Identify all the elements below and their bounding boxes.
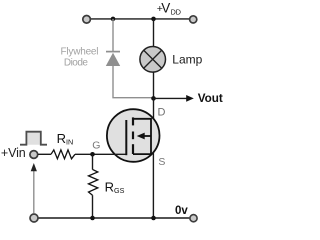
terminal bottom-left [30, 214, 38, 222]
svg-text:0v: 0v [175, 205, 188, 217]
junction node G [90, 152, 95, 157]
wire drain lead [153, 98, 155, 119]
junction source bottom [151, 216, 156, 221]
svg-text:Vout: Vout [198, 92, 223, 105]
svg-text:Lamp: Lamp [172, 53, 202, 67]
terminal top-left [83, 15, 91, 23]
junction lamp-branch top [151, 17, 156, 22]
resistor RGS bottom lead [92, 195, 94, 218]
diode D1 triangle [106, 53, 120, 66]
svg-text:D: D [158, 107, 166, 119]
junction diode-branch top [111, 17, 116, 22]
source interior connection [133, 136, 151, 154]
svg-text:S: S [158, 156, 165, 168]
lamp X stroke 1 [144, 50, 162, 68]
channel segment top [132, 117, 134, 125]
Vin arrowhead [31, 163, 37, 171]
wire Vout [154, 97, 188, 99]
wire diode branch lower [113, 66, 153, 98]
pulse input symbol [20, 132, 47, 145]
terminal top-right [190, 16, 197, 23]
junction RGS bottom [90, 216, 95, 221]
Vin arrow shaft [33, 171, 35, 214]
gate wire into transistor [75, 153, 126, 155]
drain interior connection [133, 119, 151, 136]
wire diode branch upper [112, 19, 114, 51]
transistor Q1 MOSFET body circle [107, 109, 160, 162]
channel segment middle [132, 132, 134, 140]
svg-text:RGS: RGS [105, 180, 125, 195]
svg-text:+Vin: +Vin [1, 146, 26, 160]
wire bottom 0v rail [38, 217, 189, 219]
svg-text:DD: DD [171, 8, 181, 17]
resistor RGS zigzag [89, 169, 98, 195]
terminal 0v [190, 215, 197, 222]
wire source lead [152, 153, 154, 219]
wire lamp top lead [153, 19, 155, 48]
svg-text:Diode: Diode [64, 57, 88, 68]
gate plate [125, 120, 127, 155]
resistor RGS top lead [92, 154, 94, 169]
svg-text:G: G [92, 139, 100, 151]
diode D1 flywheel cathode bar [106, 51, 120, 53]
lamp L1 circle [140, 47, 166, 73]
wire top +VDD rail [91, 18, 190, 20]
node D junction [151, 96, 156, 101]
terminal +Vin [30, 151, 38, 159]
body arrowhead [137, 133, 145, 140]
body arrow shaft [144, 135, 152, 137]
wire lamp bottom lead [153, 72, 155, 99]
svg-text:Flywheel: Flywheel [61, 46, 99, 57]
svg-text:V: V [161, 1, 170, 16]
lamp X stroke 2 [144, 50, 162, 68]
channel segment bottom [132, 144, 134, 154]
arrowhead Vout [186, 95, 194, 102]
svg-text:RIN: RIN [57, 131, 74, 146]
wire Vin to RIN [38, 153, 51, 155]
resistor RIN zigzag [51, 150, 75, 159]
